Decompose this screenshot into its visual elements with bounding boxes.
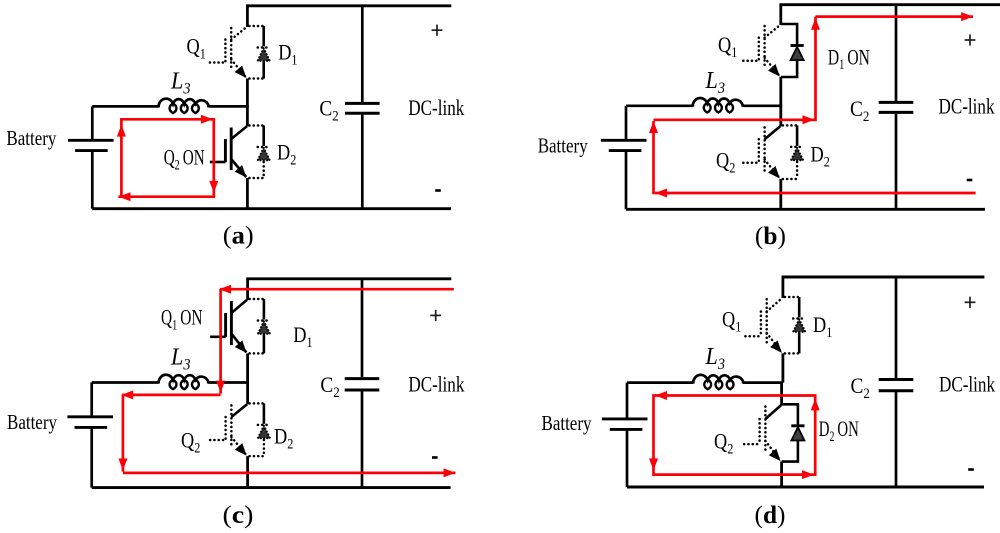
svg-text:(c): (c) [223,500,254,529]
svg-text:D2 ON: D2 ON [819,416,859,445]
svg-text:DC-link: DC-link [939,94,996,119]
svg-text:(d): (d) [755,500,786,529]
svg-text:Battery: Battery [7,410,57,434]
svg-text:Battery: Battery [6,126,56,150]
svg-text:DC-link: DC-link [408,95,465,120]
svg-text:DC-link: DC-link [939,372,996,397]
svg-text:(a): (a) [223,221,254,250]
svg-text:Battery: Battery [538,134,588,158]
svg-text:(b): (b) [755,221,786,250]
svg-text:Q1 ON: Q1 ON [161,305,203,334]
svg-text:DC-link: DC-link [408,371,465,396]
svg-text:Q2 ON: Q2 ON [164,145,205,174]
svg-text:D1 ON: D1 ON [828,44,870,73]
svg-text:Battery: Battery [542,411,592,435]
